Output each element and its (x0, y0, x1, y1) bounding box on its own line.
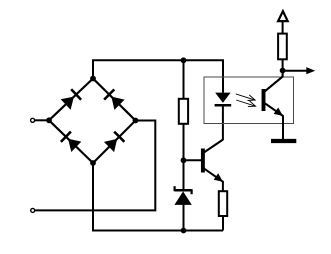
wire base node down to zener (183, 160, 185, 190)
diode D2 (bridge top-right arm) (104, 89, 124, 109)
optocoupler U1 package box (204, 77, 294, 124)
wire Q1 collector up to LED cathode (222, 106, 224, 140)
resistor R3 (219, 191, 227, 216)
light arrow 2 (236, 100, 255, 107)
wire Q1 emitter to R3 (222, 181, 224, 191)
node bridge bottom (90, 160, 96, 166)
node top-wire / R1 junction (181, 57, 187, 63)
wire node up to R2 (282, 60, 284, 71)
node base junction (181, 157, 187, 163)
wire P1 to bridge left node (35, 119, 49, 121)
wire R2 up to supply arrow (282, 21, 284, 34)
wire bottom rail (93, 163, 223, 231)
wire bridge edge left-top (49, 79, 93, 121)
wire bridge edge top-right (93, 79, 136, 121)
LED D6 (optocoupler emitter) (215, 93, 232, 106)
resistor R1 (179, 99, 188, 124)
supply arrow (open up triangle) (278, 11, 288, 21)
wire bridge edge left-bottom (49, 120, 93, 163)
diode D3 (bridge bottom-left arm) (61, 132, 81, 152)
output arrow (right) (283, 67, 316, 74)
diode D4 (bridge bottom-right arm) (104, 132, 124, 152)
wire bridge edge bottom-right (93, 121, 136, 164)
resistor R2 (278, 34, 287, 60)
wire Q2 emitter to ground (282, 115, 284, 139)
wire base node to Q1 base (184, 159, 202, 161)
node zener / bottom rail junction (181, 228, 187, 234)
phototransistor Q2 (264, 70, 283, 116)
node bridge left (46, 117, 52, 123)
wire P2 to bridge right node (35, 121, 155, 211)
diode D1 (bridge top-left arm) (61, 89, 81, 109)
zener D5 (174, 186, 191, 205)
wire R3 to bottom rail (222, 216, 224, 231)
terminal P2 (lower input, open circle) (31, 208, 35, 212)
wire zener to bottom rail (183, 205, 185, 231)
terminal P1 (upper input, open circle) (31, 118, 35, 122)
node collector / output junction (280, 68, 286, 74)
node bridge top (90, 76, 96, 82)
wire R1 to base node (183, 124, 185, 161)
light arrow 1 (236, 94, 255, 101)
wire bridge top to LED (up then right then down) (93, 60, 223, 93)
transistor Q1 (NPN) (203, 140, 223, 182)
wire junction down to R1 (183, 60, 185, 99)
ground (271, 139, 296, 143)
node bridge right (133, 118, 139, 124)
